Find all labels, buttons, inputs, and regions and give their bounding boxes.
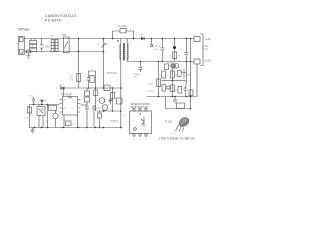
core xyxy=(122,43,124,61)
diode D2 xyxy=(41,99,44,105)
IC pins right xyxy=(78,100,81,113)
node xyxy=(190,61,192,63)
diode D1 vertical line xyxy=(103,39,105,89)
svg-text:D(DRAIN) S(SRC): D(DRAIN) S(SRC) xyxy=(131,103,150,106)
resistor R5 xyxy=(49,105,57,110)
cap C3 xyxy=(33,101,35,104)
package legend text xyxy=(131,103,150,109)
primary return wire xyxy=(120,59,122,128)
title text xyxy=(45,14,77,23)
svg-text:0.68µ: 0.68µ xyxy=(43,46,50,49)
snubber loop wire xyxy=(113,31,134,39)
svg-text:GND: GND xyxy=(205,59,211,63)
svg-text:R 4k7: R 4k7 xyxy=(148,84,154,86)
startup resistor R2 xyxy=(77,74,81,82)
node xyxy=(151,38,153,40)
TO-92 leads xyxy=(176,125,184,132)
svg-text:2200µ: 2200µ xyxy=(134,74,141,76)
node xyxy=(186,38,188,40)
vertical wire xyxy=(190,39,192,62)
lower parts row xyxy=(162,85,166,92)
resistor box xyxy=(117,98,123,104)
cap C6 47u xyxy=(93,105,95,107)
cap C11 470u xyxy=(162,39,164,48)
node xyxy=(190,38,192,40)
diode D4 xyxy=(109,99,112,105)
output terminal - xyxy=(194,59,200,64)
cap C7 xyxy=(99,111,101,113)
sense network xyxy=(104,85,110,91)
stub circle D6 xyxy=(151,39,153,45)
secondary winding xyxy=(126,44,129,59)
primary feedback wire xyxy=(60,87,121,89)
svg-text:CANON K30311S: CANON K30311S xyxy=(45,14,77,18)
svg-text:PC817: PC817 xyxy=(111,120,119,123)
varistor block VR1 xyxy=(30,41,37,44)
DIP package outline xyxy=(130,111,152,134)
node xyxy=(77,127,79,129)
terminal bracket xyxy=(200,34,203,66)
svg-text:(DC340V): (DC340V) xyxy=(107,72,118,75)
cap C12 xyxy=(186,39,188,53)
resistor R8 xyxy=(94,90,98,96)
ground secondary xyxy=(173,97,178,104)
package pins top xyxy=(133,108,135,111)
node xyxy=(162,38,164,40)
feedback lower rail wire xyxy=(147,96,198,98)
vertical feedback wires xyxy=(172,69,174,97)
node xyxy=(95,127,97,129)
node xyxy=(190,108,192,110)
svg-text:R1 100k: R1 100k xyxy=(118,26,127,28)
bulk cap line C2 xyxy=(78,39,80,89)
GND feed wire xyxy=(196,64,198,97)
svg-text:ZD: ZD xyxy=(97,44,100,46)
package pins bottom xyxy=(133,134,135,137)
svg-text:R13: R13 xyxy=(175,75,178,77)
value labels xyxy=(26,108,53,123)
svg-text:1.Ref 2.Anode 3.Cathode: 1.Ref 2.Anode 3.Cathode xyxy=(159,137,195,141)
svg-text:DB1: DB1 xyxy=(62,34,67,37)
node xyxy=(190,96,192,98)
value labels xyxy=(166,75,178,92)
TL431 loop xyxy=(166,97,191,109)
node xyxy=(88,87,90,89)
output terminal + xyxy=(194,36,200,41)
node xyxy=(99,127,101,129)
node xyxy=(133,38,135,40)
node xyxy=(47,127,49,129)
output labels xyxy=(203,37,211,63)
pin numbers xyxy=(133,139,147,141)
node xyxy=(103,38,105,40)
node xyxy=(162,61,164,63)
opto receiver PC1b xyxy=(37,107,45,116)
svg-text:0.1µ: 0.1µ xyxy=(29,96,34,98)
TO-92 package xyxy=(178,116,191,128)
below IC wires xyxy=(63,115,65,128)
secondary rail wire xyxy=(126,59,128,62)
node xyxy=(139,113,140,114)
node xyxy=(33,104,35,106)
svg-text:TL431: TL431 xyxy=(165,120,174,124)
node xyxy=(62,127,64,129)
transistor Q3 xyxy=(102,105,108,111)
resistors row xyxy=(162,71,166,78)
svg-text:35V: 35V xyxy=(155,49,159,51)
bias network wire xyxy=(89,71,96,88)
wire top rail xyxy=(24,38,194,40)
diode D3 xyxy=(61,86,64,89)
svg-text:1k: 1k xyxy=(166,75,168,77)
node xyxy=(112,110,114,112)
node xyxy=(95,87,97,89)
node xyxy=(47,104,49,106)
node xyxy=(86,127,88,129)
svg-text:431: 431 xyxy=(175,90,178,92)
LED + resistor branch xyxy=(174,39,176,62)
svg-text:TNY253P: TNY253P xyxy=(61,92,73,96)
node xyxy=(172,96,174,98)
bias resistor R3 xyxy=(90,75,94,82)
primary winding xyxy=(119,44,122,59)
node xyxy=(120,110,122,112)
capacitor C1 0.68u xyxy=(41,39,43,45)
connector J1 xyxy=(18,37,24,55)
wire bottom input rail xyxy=(24,51,103,53)
node xyxy=(172,80,174,82)
internal mosfet symbol xyxy=(141,117,144,127)
svg-text:+24V: +24V xyxy=(205,37,212,41)
svg-text:230Vac: 230Vac xyxy=(18,27,30,31)
mid wire xyxy=(162,79,187,81)
node xyxy=(78,51,80,53)
ground xyxy=(26,53,30,58)
transistor Q2 xyxy=(99,98,105,104)
svg-text:47k: 47k xyxy=(50,108,53,110)
svg-text:TL431: TL431 xyxy=(148,91,155,93)
ground primary xyxy=(30,128,34,133)
node xyxy=(158,96,160,98)
wire xyxy=(30,104,60,106)
node xyxy=(140,61,142,63)
R divider chain xyxy=(158,62,160,97)
node xyxy=(112,38,114,40)
left branch resistor R4 xyxy=(29,105,31,128)
wire xyxy=(97,110,121,112)
transformer T1 xyxy=(117,39,132,61)
node xyxy=(103,51,105,53)
node xyxy=(78,38,80,40)
IC pins left xyxy=(60,100,63,113)
node xyxy=(112,87,114,89)
node xyxy=(120,127,122,129)
svg-text:470µF: 470µF xyxy=(155,46,162,48)
zener ZD1 xyxy=(102,43,107,48)
bottom rail wire xyxy=(29,127,123,129)
transistor Q1 xyxy=(53,113,58,118)
node xyxy=(41,127,43,129)
IC pin labels xyxy=(64,100,75,111)
node xyxy=(120,87,122,89)
node xyxy=(41,104,43,106)
fuse F1 xyxy=(26,50,30,53)
svg-text:35V: 35V xyxy=(134,77,138,79)
svg-text:0.7A: 0.7A xyxy=(203,48,208,51)
node xyxy=(63,87,65,89)
node xyxy=(186,61,188,63)
node xyxy=(103,110,105,112)
node xyxy=(103,127,105,129)
snubber R1 xyxy=(120,28,126,33)
cap C10 xyxy=(140,62,142,68)
node xyxy=(186,96,188,98)
zener ZD2 xyxy=(182,69,187,79)
node xyxy=(158,61,160,63)
IC right caps xyxy=(85,91,90,96)
svg-text:PS-A245: PS-A245 xyxy=(45,19,61,23)
node xyxy=(174,96,176,98)
node xyxy=(103,87,105,89)
svg-text:+24V: +24V xyxy=(203,46,209,48)
node xyxy=(173,46,176,49)
node xyxy=(34,127,36,129)
node xyxy=(174,38,176,40)
